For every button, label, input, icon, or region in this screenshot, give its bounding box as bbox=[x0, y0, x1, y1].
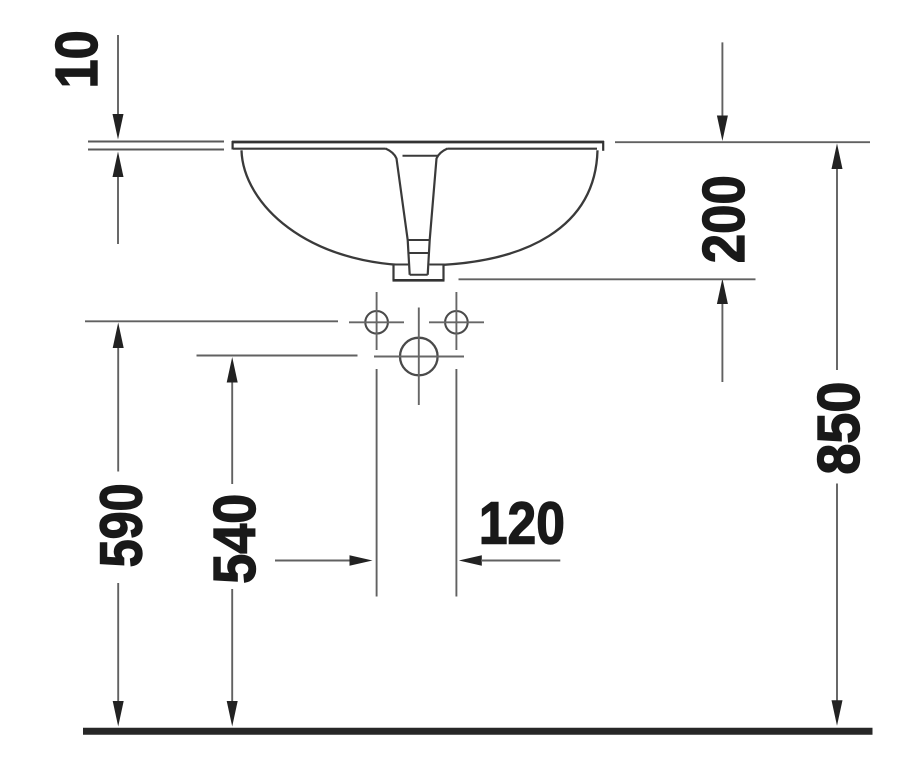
basin rim left cap bbox=[232, 141, 234, 150]
dimension 850 upper segment bbox=[836, 169, 838, 370]
rim level extension line right bbox=[615, 141, 870, 143]
floor line bbox=[83, 728, 873, 735]
dimension 120 left tail bbox=[275, 560, 352, 562]
dimension 10 line lower segment bbox=[117, 177, 119, 244]
bowl right contour bbox=[418, 150, 598, 265]
small hole left crosshair vertical bbox=[376, 292, 378, 350]
dimension 200 lower arrow (up) bbox=[717, 279, 728, 305]
dimension 200 lower segment bbox=[721, 304, 723, 382]
overflow funnel body bbox=[386, 149, 448, 275]
hole extension line right bbox=[455, 369, 457, 597]
dimension 540 lower segment bbox=[231, 589, 233, 701]
hole extension line left bbox=[376, 369, 378, 597]
dimension 590 upper segment bbox=[117, 348, 119, 472]
dimension 200 upper segment bbox=[721, 42, 723, 116]
dimension 590 lower segment bbox=[117, 583, 119, 701]
small hole right bbox=[445, 311, 468, 334]
basin rim bottom line right segment bbox=[448, 148, 598, 150]
mixer hole level extension line bbox=[197, 355, 358, 357]
svg-text:590: 590 bbox=[89, 483, 155, 567]
dimension 120 left arrow (right) bbox=[350, 555, 373, 565]
dimension 540 lower arrow (down) bbox=[227, 701, 238, 727]
faucet holes level extension line bbox=[85, 320, 338, 322]
dimension 540 upper arrow (up) bbox=[227, 357, 238, 383]
mixer hole crosshair vertical bbox=[418, 308, 420, 406]
dimension 10 line upper segment bbox=[117, 35, 119, 116]
dimension 590 lower arrow (down) bbox=[113, 701, 124, 727]
funnel inner rim line bbox=[403, 155, 439, 157]
dimension 850 lower segment bbox=[836, 484, 838, 702]
drain tube bottom edge bbox=[410, 274, 428, 276]
dimension 10 lower arrow (up) bbox=[113, 152, 124, 178]
countertop upper line bbox=[88, 141, 224, 143]
bowl left contour bbox=[242, 150, 419, 265]
dimension 10 upper arrow (down) bbox=[113, 114, 124, 140]
funnel right side bbox=[428, 149, 448, 275]
dimension 590 upper arrow (up) bbox=[113, 323, 124, 349]
dimension 200 upper arrow (down) bbox=[717, 116, 728, 142]
funnel joint line lower bbox=[409, 252, 430, 254]
basin rim top line bbox=[232, 141, 604, 144]
dimension 120 right arrow (left) bbox=[459, 555, 482, 565]
svg-text:120: 120 bbox=[479, 491, 565, 557]
dimension 540 upper segment bbox=[231, 383, 233, 485]
svg-text:540: 540 bbox=[202, 494, 268, 584]
mixer hole crosshair horizontal bbox=[374, 356, 464, 358]
dimension 850 lower arrow (down) bbox=[832, 700, 843, 726]
drain mounting bracket bbox=[393, 264, 445, 281]
dimension 120 right tail bbox=[481, 560, 560, 562]
basin rim right cap bbox=[602, 141, 604, 151]
small hole left bbox=[365, 311, 388, 334]
basin rim bottom line left segment bbox=[233, 148, 386, 150]
funnel joint line upper bbox=[408, 239, 431, 241]
funnel left side bbox=[386, 149, 410, 275]
small hole left crosshair horizontal bbox=[349, 321, 404, 323]
small hole right crosshair vertical bbox=[455, 292, 457, 350]
mixer hole bbox=[400, 338, 438, 376]
dimension 850 upper arrow (up) bbox=[832, 143, 843, 169]
svg-text:850: 850 bbox=[806, 382, 872, 475]
svg-text:10: 10 bbox=[44, 30, 110, 88]
small hole right crosshair horizontal bbox=[429, 321, 484, 323]
svg-text:200: 200 bbox=[691, 175, 757, 263]
drain level extension line bbox=[459, 278, 756, 280]
countertop lower line bbox=[88, 149, 224, 151]
